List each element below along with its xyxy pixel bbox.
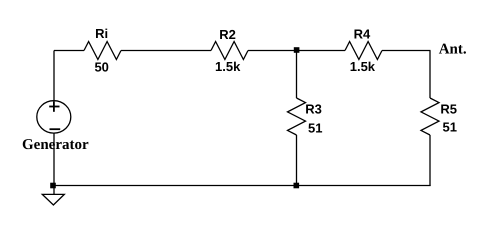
svg-text:R5: R5 xyxy=(440,101,457,116)
resistor R5 xyxy=(421,98,457,135)
svg-text:50: 50 xyxy=(94,60,108,75)
wire generator bottom lead xyxy=(53,133,55,185)
svg-text:1.5k: 1.5k xyxy=(350,59,376,74)
ground xyxy=(42,188,64,205)
wire node to R4 xyxy=(297,50,346,52)
svg-text:R2: R2 xyxy=(219,27,236,42)
svg-text:1.5k: 1.5k xyxy=(215,59,241,74)
wire node down to R3 xyxy=(296,51,298,99)
wire right corner down to R5 xyxy=(429,51,431,99)
svg-text:Ri: Ri xyxy=(95,26,108,41)
wire generator top lead xyxy=(53,51,55,101)
wire R4 to right corner xyxy=(382,50,431,52)
resistor R2 xyxy=(211,27,248,74)
wire R3 to bottom wire xyxy=(296,135,298,186)
svg-text:51: 51 xyxy=(443,120,457,135)
node junction dot (bottom middle) xyxy=(294,183,300,189)
wire R2 to node xyxy=(248,50,297,52)
wire bottom horizontal xyxy=(54,185,431,187)
resistor R4 xyxy=(345,27,382,75)
wire R5 to bottom right corner xyxy=(429,135,431,186)
resistor R3 xyxy=(288,98,323,136)
svg-text:Ant.: Ant. xyxy=(439,42,467,58)
resistor Ri xyxy=(84,26,121,75)
node junction dot (bottom left / ground node) xyxy=(50,183,56,189)
wire top-left horizontal (generator top corner to Ri) xyxy=(54,50,84,52)
svg-text:R4: R4 xyxy=(354,27,371,42)
generator voltage source circle xyxy=(22,101,89,153)
svg-text:51: 51 xyxy=(308,121,322,136)
svg-text:Generator: Generator xyxy=(22,137,89,153)
wire Ri to R2 xyxy=(121,50,211,52)
svg-text:R3: R3 xyxy=(305,101,322,116)
node junction dot (top middle) xyxy=(294,47,300,53)
